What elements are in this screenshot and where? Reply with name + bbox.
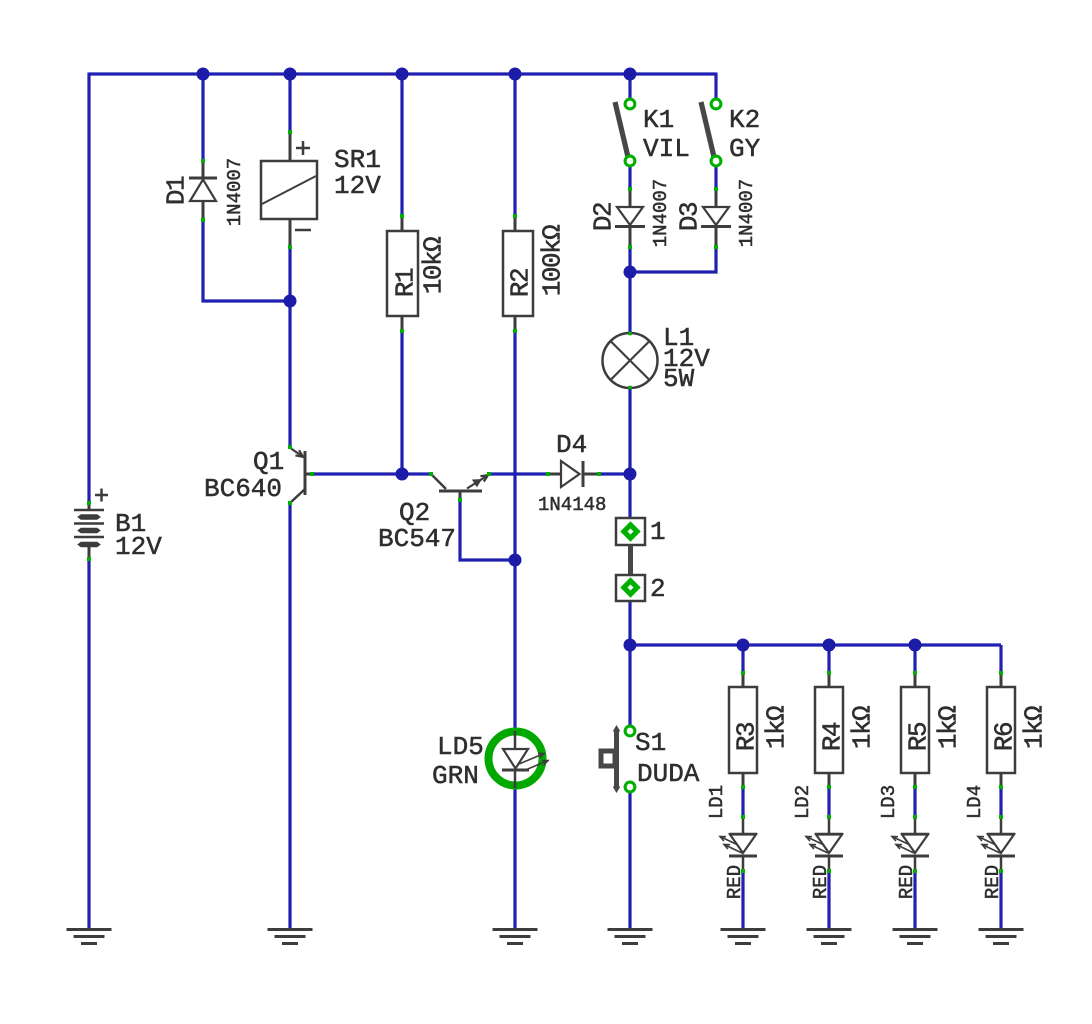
- value RED of LD4: [982, 865, 1004, 899]
- wire R2 bottom through to LD5: [513, 331, 516, 729]
- value 1k of R6: [1019, 706, 1049, 749]
- wire lamp to connector: [628, 388, 631, 519]
- junction node 9: [624, 468, 637, 481]
- label K1: [643, 105, 674, 135]
- wire R6 to LD4: [999, 787, 1002, 817]
- value 1k of R4: [847, 706, 877, 749]
- wire R1 top: [400, 74, 403, 216]
- value 1N4007 of D3: [736, 179, 758, 247]
- wire bus to R6: [999, 645, 1002, 674]
- pin label 2: [650, 574, 666, 604]
- label Q1: [253, 447, 284, 477]
- ground 7: [893, 930, 938, 944]
- wire LD5 to ground: [513, 788, 516, 930]
- value GRN of LD5: [432, 761, 479, 791]
- value 12V of L1: [663, 344, 710, 374]
- wire battery negative to ground: [87, 559, 90, 930]
- wire K2 to D3: [714, 165, 717, 190]
- svg-text:5W: 5W: [663, 364, 695, 394]
- wire R4 to LD2: [827, 787, 830, 817]
- wire LD2 to ground: [827, 871, 830, 930]
- value 1k of R3: [761, 706, 791, 749]
- svg-text:R4: R4: [817, 722, 847, 751]
- connector pad 2: [616, 575, 645, 601]
- svg-text:R1: R1: [390, 268, 420, 297]
- svg-text:1: 1: [650, 517, 666, 547]
- wire D1 bottom to SR1 node: [203, 220, 290, 301]
- svg-text:1kΩ: 1kΩ: [761, 706, 791, 749]
- svg-text:1N4007: 1N4007: [650, 179, 672, 247]
- label D1: [161, 176, 191, 205]
- value 1N4007 of D1: [224, 158, 246, 226]
- svg-text:R3: R3: [731, 723, 761, 751]
- label LD1: [706, 785, 728, 819]
- wire K1 to D2: [628, 165, 631, 190]
- resistor R4: [815, 671, 843, 789]
- label R4: [817, 722, 847, 751]
- svg-text:1kΩ: 1kΩ: [933, 706, 963, 749]
- junction node 10: [509, 554, 522, 567]
- junction node 14: [909, 639, 922, 652]
- svg-text:D3: D3: [674, 203, 704, 231]
- wire Q2 emitter to R2 column: [460, 500, 515, 560]
- svg-text:BC640: BC640: [204, 474, 282, 504]
- junction node 7: [624, 266, 637, 279]
- wire R5 to LD3: [913, 787, 916, 817]
- wire Q1 base to Q2 base: [311, 472, 431, 475]
- wire Q2 collector to D4: [489, 472, 548, 475]
- svg-text:RED: RED: [810, 865, 832, 899]
- wire bus to K1: [628, 74, 631, 100]
- ground 1: [67, 930, 112, 944]
- label K2: [729, 105, 760, 135]
- svg-text:VIL: VIL: [643, 134, 690, 164]
- wire R3 to LD1: [741, 787, 744, 817]
- label LD5: [437, 732, 484, 762]
- value BC547 of Q2: [378, 524, 456, 554]
- label R6: [989, 723, 1019, 751]
- wire top supply bus: [89, 72, 716, 75]
- svg-text:LD3: LD3: [878, 785, 900, 819]
- svg-text:D2: D2: [588, 203, 618, 231]
- wire D2 to lamp: [628, 247, 631, 334]
- ground 5: [721, 930, 766, 944]
- resistor R5: [901, 671, 929, 789]
- ground 6: [807, 930, 852, 944]
- resistor R2: [503, 214, 533, 333]
- value GY of K2: [729, 134, 761, 164]
- svg-text:1kΩ: 1kΩ: [847, 706, 877, 749]
- svg-text:R6: R6: [989, 723, 1019, 751]
- switch K2: [701, 99, 721, 166]
- label D4: [556, 430, 587, 460]
- label S1: [635, 728, 666, 758]
- svg-text:10kΩ: 10kΩ: [418, 237, 448, 294]
- junction node 6: [284, 295, 297, 308]
- LED LD4: [978, 815, 1015, 873]
- label L1: [663, 323, 694, 353]
- junction node 5: [624, 68, 637, 81]
- svg-text:100kΩ: 100kΩ: [537, 225, 567, 296]
- ground 3: [493, 930, 538, 944]
- value 12V of SR1: [334, 171, 381, 201]
- svg-text:LD1: LD1: [706, 785, 728, 819]
- LED LD5: [489, 731, 549, 788]
- label B1: [115, 509, 146, 539]
- value RED of LD2: [810, 865, 832, 899]
- transistor Q1: [288, 445, 314, 505]
- svg-text:1N4148: 1N4148: [538, 494, 606, 516]
- junction node 13: [823, 639, 836, 652]
- wire bus to R4: [827, 645, 830, 674]
- wire LD4 to ground: [999, 871, 1002, 930]
- svg-text:1N4007: 1N4007: [224, 158, 246, 226]
- value BC640 of Q1: [204, 474, 282, 504]
- diode D3: [701, 187, 731, 249]
- battery B1: [74, 489, 108, 562]
- wire left rail from bus to battery: [87, 73, 90, 504]
- connector link bar: [628, 545, 633, 576]
- value 100k of R2: [537, 225, 567, 296]
- ground 4: [608, 930, 653, 944]
- wire SR1 top: [288, 74, 291, 133]
- switch K1: [615, 99, 635, 166]
- value 5W of L1: [663, 364, 695, 394]
- junction node 1: [197, 68, 210, 81]
- label D2: [588, 203, 618, 231]
- diode D1: [189, 159, 217, 222]
- svg-text:R2: R2: [505, 269, 535, 297]
- wire R2 top: [513, 74, 516, 216]
- label LD4: [964, 785, 986, 819]
- svg-text:12V: 12V: [334, 171, 381, 201]
- svg-text:K2: K2: [729, 105, 760, 135]
- value RED of LD3: [896, 865, 918, 899]
- wire SR1 bottom to Q1 emitter: [288, 247, 291, 447]
- junction node 8: [396, 468, 409, 481]
- value 1N4007 of D2: [650, 179, 672, 247]
- svg-text:LD4: LD4: [964, 785, 986, 819]
- value 12V of B1: [115, 532, 162, 562]
- label LD3: [878, 785, 900, 819]
- wire LD3 to ground: [913, 871, 916, 930]
- label R5: [903, 723, 933, 751]
- svg-text:RED: RED: [896, 865, 918, 899]
- resistor R6: [987, 671, 1015, 789]
- svg-text:GY: GY: [729, 134, 761, 164]
- svg-text:Q1: Q1: [253, 447, 284, 477]
- label SR1: [334, 145, 381, 175]
- svg-text:LD2: LD2: [792, 785, 814, 819]
- svg-text:RED: RED: [982, 865, 1004, 899]
- value 1N4148 of D4: [538, 494, 606, 516]
- wire D3 to lamp node: [630, 247, 716, 272]
- wire LD1 to ground: [741, 871, 744, 930]
- label R3: [731, 723, 761, 751]
- ground 8: [979, 930, 1024, 944]
- value 1k of R5: [933, 706, 963, 749]
- pin label 1: [650, 517, 666, 547]
- resistor R3: [729, 671, 757, 789]
- connector pad 1: [616, 518, 645, 545]
- svg-text:12V: 12V: [115, 532, 162, 562]
- value 10k of R1: [418, 237, 448, 294]
- value VIL of K1: [643, 134, 690, 164]
- wire bus to R5: [913, 645, 916, 674]
- svg-text:2: 2: [650, 574, 666, 604]
- svg-text:RED: RED: [724, 865, 746, 899]
- junction node 12: [737, 639, 750, 652]
- label R2: [505, 269, 535, 297]
- svg-text:D4: D4: [556, 430, 587, 460]
- wire D1 top: [201, 74, 204, 162]
- svg-text:1N4007: 1N4007: [736, 179, 758, 247]
- wire D4 to lamp node: [600, 472, 630, 475]
- svg-text:1kΩ: 1kΩ: [1019, 706, 1049, 749]
- label R1: [390, 268, 420, 297]
- value DUDA of S1: [637, 759, 700, 789]
- diode D2: [615, 187, 645, 249]
- svg-text:S1: S1: [635, 728, 666, 758]
- svg-text:LD5: LD5: [437, 732, 484, 762]
- relay SR1: [261, 130, 317, 249]
- resistor R1: [387, 214, 418, 333]
- LED LD1: [720, 815, 757, 873]
- LED LD2: [806, 815, 843, 873]
- push button S1: [601, 726, 635, 792]
- wire bus corner to K2: [714, 73, 717, 101]
- wire S1 to ground: [628, 791, 631, 930]
- svg-text:R5: R5: [903, 723, 933, 751]
- junction node 2: [284, 68, 297, 81]
- junction node 4: [509, 68, 522, 81]
- wire bottom LED bus: [630, 643, 1001, 646]
- label D3: [674, 203, 704, 231]
- transistor Q2: [429, 472, 491, 502]
- wire connector to S1: [628, 600, 631, 727]
- junction node 3: [396, 68, 409, 81]
- label LD2: [792, 785, 814, 819]
- lamp L1: [603, 332, 658, 390]
- label Q2: [399, 498, 430, 528]
- wire bus to R3: [741, 645, 744, 674]
- svg-text:D1: D1: [161, 176, 191, 205]
- svg-text:K1: K1: [643, 105, 674, 135]
- svg-text:GRN: GRN: [432, 761, 479, 791]
- svg-text:BC547: BC547: [378, 524, 456, 554]
- wire R1 bottom to base node: [400, 331, 403, 474]
- diode D4: [546, 461, 601, 487]
- LED LD3: [892, 815, 929, 873]
- svg-text:DUDA: DUDA: [637, 759, 700, 789]
- wire Q1 collector to ground: [288, 503, 291, 930]
- value RED of LD1: [724, 865, 746, 899]
- ground 2: [268, 930, 313, 944]
- junction node 11: [624, 639, 637, 652]
